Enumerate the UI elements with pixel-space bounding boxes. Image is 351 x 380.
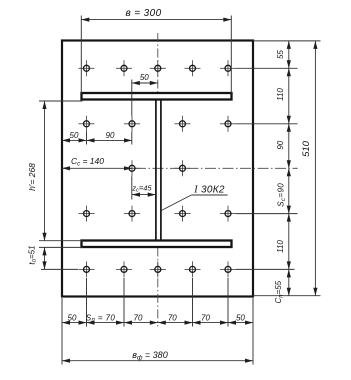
right chain extension lines [236,41,321,296]
I-beam web [156,100,161,241]
svg-text:90: 90 [276,140,285,149]
dimension bf=380 line with arrows [62,359,253,363]
dimension tp=51 line with arrows [42,247,46,269]
svg-text:zc=45: zc=45 [131,183,152,193]
svg-text:50: 50 [70,131,79,140]
bolt row5-3 [150,261,166,277]
dimension b=300 line with arrows [81,18,231,22]
svg-text:I 30К2: I 30К2 [193,185,225,196]
svg-text:Sп = 70: Sп = 70 [86,313,116,323]
bolt row5-2 [116,261,132,277]
bolt row1-2 [116,60,132,76]
svg-text:110: 110 [276,88,285,101]
svg-text:50: 50 [68,313,77,322]
bolt row1-3 [150,60,166,76]
svg-text:50: 50 [140,73,149,82]
bottom chain dimension line with arrows [62,321,253,325]
svg-text:90: 90 [106,131,115,140]
bolt row4-2 [124,206,140,222]
dimension h'=268 extension lines [39,101,83,241]
bolt row2-2 [124,116,140,132]
col F extension line segments [131,80,133,200]
label I 30K2 with leader line [161,185,227,211]
bolt row5-1 [79,261,95,277]
bolt row1-5 [220,60,236,76]
svg-text:Cп=55: Cп=55 [274,280,284,303]
bolt row4-1 [79,206,95,222]
svg-text:510: 510 [301,140,312,157]
dimension 50/90 line with arrows [62,138,132,142]
svg-text:70: 70 [134,313,143,322]
bolt row1-4 [185,60,201,76]
dimension 50 line with arrows (top) [132,81,158,85]
bolt row4-4 [220,206,236,222]
dimension 510 line with arrows [313,41,317,296]
svg-text:70: 70 [168,313,177,322]
svg-text:h′= 268: h′= 268 [27,163,37,191]
dimension zc=45 line with arrows [132,193,156,197]
extension line below bolt row2 col A [86,132,88,145]
right chain dimension line with arrows [287,41,291,296]
bolt row2-1 [79,116,95,132]
horizontal centerline (section axis) [62,167,132,169]
svg-text:55: 55 [276,50,285,59]
bolt row4-3 [175,206,191,222]
svg-text:Cc = 140: Cc = 140 [71,156,104,168]
vertical centerline (web axis) [157,33,159,327]
I-beam bottom flange [82,241,232,248]
svg-text:70: 70 [201,313,210,322]
svg-text:50: 50 [236,313,245,322]
svg-text:110: 110 [276,240,285,253]
base plate outline [62,41,253,297]
dimension b=300 extension lines [81,16,231,94]
bottom chain extension lines [62,278,253,365]
dimension Cc=140 arrows [62,166,132,170]
bolt row2-3 [175,116,191,132]
bolt row3-1 [124,160,140,176]
dimension tp=51 extension lines [39,247,83,269]
bolt row3-2 [175,160,191,176]
bolt row1-1 [79,60,95,76]
dimension h'=268 line with arrows [42,101,46,241]
bolt row5-5 [220,261,236,277]
I-beam top flange [82,93,232,100]
bolt row2-4 [220,116,236,132]
bolt row5-4 [185,261,201,277]
svg-text:Sc=90: Sc=90 [277,183,287,207]
svg-text:в = 300: в = 300 [125,8,161,19]
